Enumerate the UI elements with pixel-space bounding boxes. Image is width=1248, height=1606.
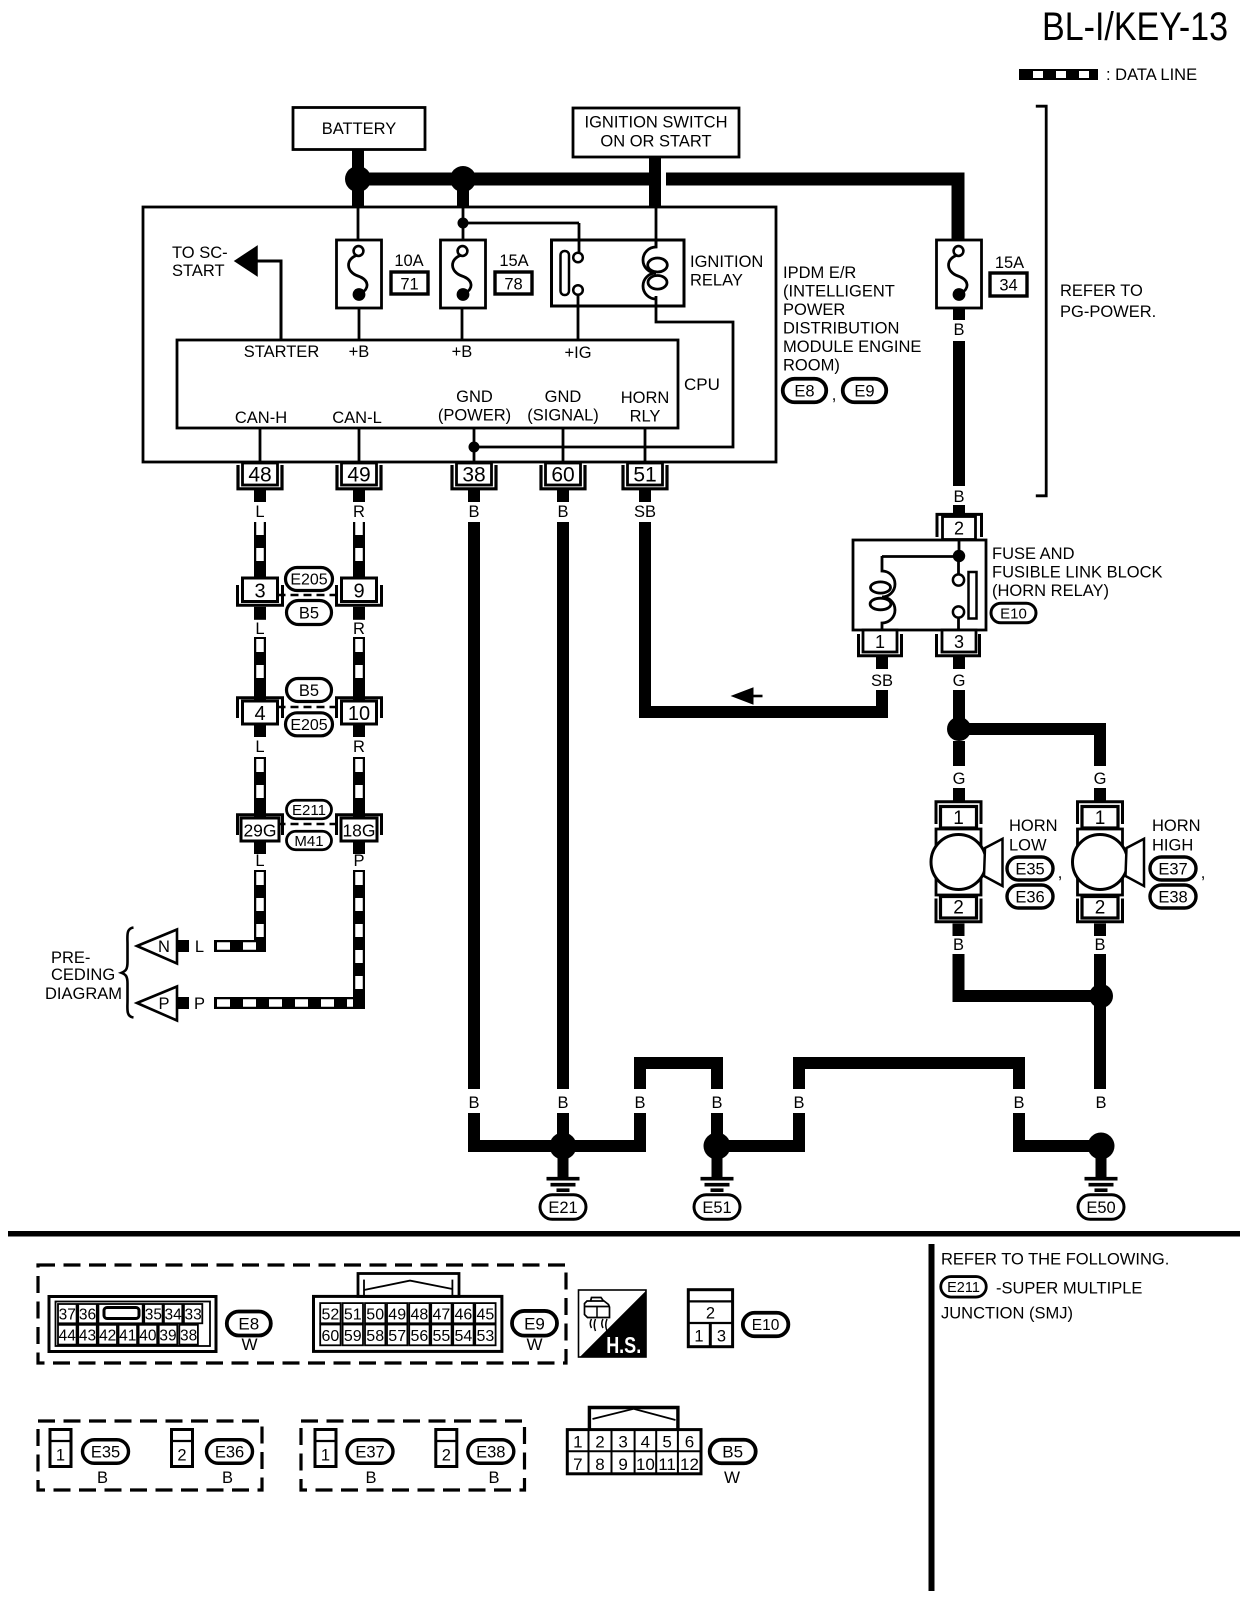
svg-text:ON OR START: ON OR START bbox=[600, 133, 711, 151]
svg-text:E8: E8 bbox=[238, 1315, 259, 1334]
svg-text:PRE-: PRE- bbox=[51, 949, 90, 967]
svg-text:54: 54 bbox=[455, 1328, 473, 1345]
svg-text:44: 44 bbox=[59, 1328, 77, 1345]
svg-text:39: 39 bbox=[159, 1328, 176, 1345]
svg-text:51: 51 bbox=[344, 1307, 362, 1324]
svg-text:E8: E8 bbox=[794, 382, 814, 400]
svg-text:E205: E205 bbox=[290, 572, 327, 589]
svg-text:2: 2 bbox=[953, 898, 964, 919]
svg-text:B: B bbox=[1095, 1094, 1106, 1112]
svg-text:P: P bbox=[353, 852, 364, 870]
svg-text:B: B bbox=[1094, 936, 1105, 954]
svg-text:L: L bbox=[255, 503, 264, 521]
svg-text:3: 3 bbox=[254, 581, 265, 603]
svg-text:TO SC-: TO SC- bbox=[172, 244, 228, 262]
svg-text:45: 45 bbox=[477, 1307, 495, 1324]
svg-text:4: 4 bbox=[641, 1433, 650, 1452]
svg-text:N: N bbox=[158, 938, 170, 956]
svg-text:B: B bbox=[953, 936, 964, 954]
svg-text:4: 4 bbox=[254, 703, 265, 725]
svg-text:PG-POWER.: PG-POWER. bbox=[1060, 303, 1156, 321]
svg-text:RLY: RLY bbox=[630, 408, 661, 426]
svg-text:P: P bbox=[194, 995, 205, 1013]
svg-text:HORN: HORN bbox=[621, 389, 670, 407]
svg-text:37: 37 bbox=[59, 1307, 76, 1324]
svg-text:50: 50 bbox=[366, 1307, 384, 1324]
svg-text:L: L bbox=[255, 852, 264, 870]
svg-text:E50: E50 bbox=[1086, 1199, 1115, 1217]
svg-text:2: 2 bbox=[442, 1447, 451, 1465]
svg-text:+IG: +IG bbox=[564, 344, 591, 362]
svg-text:2: 2 bbox=[177, 1447, 186, 1465]
svg-text:1: 1 bbox=[321, 1447, 330, 1465]
svg-text:RELAY: RELAY bbox=[690, 272, 743, 290]
svg-text:43: 43 bbox=[79, 1328, 96, 1345]
svg-text:B5: B5 bbox=[722, 1443, 743, 1462]
svg-text:+B: +B bbox=[349, 343, 370, 361]
svg-text:47: 47 bbox=[433, 1307, 451, 1324]
svg-text:E38: E38 bbox=[476, 1443, 505, 1461]
svg-text:E35: E35 bbox=[91, 1443, 120, 1461]
svg-text:GND: GND bbox=[545, 388, 582, 406]
svg-text:B: B bbox=[488, 1469, 499, 1487]
svg-text:29G: 29G bbox=[243, 821, 276, 841]
svg-text:B: B bbox=[953, 321, 964, 339]
svg-text:JUNCTION (SMJ): JUNCTION (SMJ) bbox=[941, 1305, 1073, 1323]
svg-text:3: 3 bbox=[717, 1328, 726, 1346]
svg-text:L: L bbox=[255, 620, 264, 638]
svg-text:+B: +B bbox=[452, 343, 473, 361]
svg-text:E21: E21 bbox=[548, 1199, 577, 1217]
svg-text:LOW: LOW bbox=[1009, 837, 1047, 855]
svg-text:35: 35 bbox=[145, 1307, 162, 1324]
svg-text:15A: 15A bbox=[499, 252, 528, 270]
svg-text:B: B bbox=[468, 1094, 479, 1112]
svg-text:R: R bbox=[353, 620, 365, 638]
svg-text:REFER TO: REFER TO bbox=[1060, 282, 1143, 300]
svg-text:FUSIBLE LINK BLOCK: FUSIBLE LINK BLOCK bbox=[992, 564, 1163, 582]
svg-text:B: B bbox=[953, 488, 964, 506]
svg-text:12: 12 bbox=[680, 1455, 699, 1474]
svg-text:G: G bbox=[953, 672, 966, 690]
svg-text:B: B bbox=[97, 1469, 108, 1487]
svg-text:3: 3 bbox=[618, 1433, 627, 1452]
svg-text:(HORN RELAY): (HORN RELAY) bbox=[992, 582, 1109, 600]
svg-text:58: 58 bbox=[366, 1328, 384, 1345]
svg-text:E37: E37 bbox=[355, 1443, 384, 1461]
svg-text:: DATA LINE: : DATA LINE bbox=[1106, 66, 1197, 84]
svg-text:B: B bbox=[468, 503, 479, 521]
svg-text:34: 34 bbox=[999, 277, 1017, 295]
svg-text:3: 3 bbox=[954, 632, 964, 652]
svg-text:E36: E36 bbox=[1015, 888, 1044, 906]
svg-text:10: 10 bbox=[348, 703, 370, 725]
svg-text:E10: E10 bbox=[1000, 605, 1027, 622]
svg-text:P: P bbox=[158, 995, 169, 1013]
svg-text:1: 1 bbox=[56, 1447, 65, 1465]
svg-text:,: , bbox=[1058, 864, 1063, 882]
svg-text:B5: B5 bbox=[299, 682, 319, 700]
svg-text:M41: M41 bbox=[294, 833, 323, 850]
svg-text:53: 53 bbox=[477, 1328, 495, 1345]
svg-text:E9: E9 bbox=[524, 1314, 545, 1333]
svg-text:(INTELLIGENT: (INTELLIGENT bbox=[783, 283, 895, 301]
svg-text:1: 1 bbox=[953, 808, 964, 829]
svg-text:55: 55 bbox=[433, 1328, 451, 1345]
svg-text:59: 59 bbox=[344, 1328, 362, 1345]
svg-text:START: START bbox=[172, 262, 225, 280]
svg-text:8: 8 bbox=[595, 1455, 604, 1474]
svg-text:38: 38 bbox=[180, 1328, 197, 1345]
svg-text:E37: E37 bbox=[1158, 860, 1187, 878]
svg-text:B5: B5 bbox=[299, 604, 319, 622]
svg-text:POWER: POWER bbox=[783, 301, 845, 319]
svg-text:60: 60 bbox=[322, 1328, 340, 1345]
svg-text:R: R bbox=[353, 503, 365, 521]
svg-text:2: 2 bbox=[954, 519, 964, 539]
svg-text:L: L bbox=[255, 738, 264, 756]
svg-text:7: 7 bbox=[573, 1455, 582, 1474]
svg-text:W: W bbox=[241, 1335, 257, 1354]
svg-text:B: B bbox=[634, 1094, 645, 1112]
svg-text:SB: SB bbox=[634, 503, 656, 521]
svg-text:R: R bbox=[353, 738, 365, 756]
svg-text:REFER TO THE FOLLOWING.: REFER TO THE FOLLOWING. bbox=[941, 1251, 1169, 1269]
svg-text:34: 34 bbox=[164, 1307, 182, 1324]
svg-text:10A: 10A bbox=[394, 252, 423, 270]
svg-text:E205: E205 bbox=[290, 717, 327, 734]
svg-text:56: 56 bbox=[411, 1328, 429, 1345]
svg-text:FUSE AND: FUSE AND bbox=[992, 545, 1075, 563]
svg-text:W: W bbox=[724, 1468, 740, 1487]
svg-text:71: 71 bbox=[400, 276, 418, 294]
svg-text:GND: GND bbox=[456, 388, 493, 406]
svg-text:10: 10 bbox=[636, 1455, 655, 1474]
svg-text:CPU: CPU bbox=[684, 375, 720, 394]
svg-text:BL-I/KEY-13: BL-I/KEY-13 bbox=[1042, 5, 1228, 49]
svg-text:B: B bbox=[1013, 1094, 1024, 1112]
svg-text:18G: 18G bbox=[342, 821, 375, 841]
svg-text:BATTERY: BATTERY bbox=[322, 120, 397, 138]
svg-text:(POWER): (POWER) bbox=[438, 407, 511, 425]
svg-text:E51: E51 bbox=[702, 1199, 731, 1217]
svg-text:9: 9 bbox=[618, 1455, 627, 1474]
svg-text:60: 60 bbox=[551, 464, 574, 487]
svg-text:52: 52 bbox=[322, 1307, 340, 1324]
svg-text:H.S.: H.S. bbox=[606, 1332, 641, 1358]
svg-text:MODULE ENGINE: MODULE ENGINE bbox=[783, 338, 921, 356]
svg-text:CAN-H: CAN-H bbox=[235, 409, 287, 427]
svg-text:-SUPER MULTIPLE: -SUPER MULTIPLE bbox=[996, 1280, 1142, 1298]
svg-text:(SIGNAL): (SIGNAL) bbox=[527, 407, 599, 425]
svg-text:G: G bbox=[1094, 770, 1107, 788]
svg-text:E211: E211 bbox=[947, 1280, 980, 1296]
svg-text:2: 2 bbox=[595, 1433, 604, 1452]
svg-text:E9: E9 bbox=[854, 382, 874, 400]
svg-text:HORN: HORN bbox=[1152, 817, 1201, 835]
svg-text:,: , bbox=[1201, 864, 1206, 882]
svg-text:,: , bbox=[832, 386, 837, 404]
svg-text:ROOM): ROOM) bbox=[783, 357, 840, 375]
svg-text:STARTER: STARTER bbox=[244, 343, 320, 361]
svg-text:E10: E10 bbox=[752, 1317, 780, 1334]
svg-text:5: 5 bbox=[662, 1433, 671, 1452]
svg-text:B: B bbox=[365, 1469, 376, 1487]
svg-text:B: B bbox=[557, 1094, 568, 1112]
svg-text:DISTRIBUTION: DISTRIBUTION bbox=[783, 320, 899, 338]
svg-text:1: 1 bbox=[573, 1433, 582, 1452]
svg-text:51: 51 bbox=[633, 464, 656, 487]
svg-text:40: 40 bbox=[139, 1328, 157, 1345]
svg-text:G: G bbox=[953, 770, 966, 788]
svg-text:DIAGRAM: DIAGRAM bbox=[45, 985, 122, 1003]
svg-text:46: 46 bbox=[455, 1307, 473, 1324]
svg-text:42: 42 bbox=[99, 1328, 116, 1345]
svg-text:49: 49 bbox=[388, 1307, 406, 1324]
svg-text:33: 33 bbox=[184, 1307, 201, 1324]
svg-text:E38: E38 bbox=[1158, 888, 1187, 906]
svg-text:E35: E35 bbox=[1015, 860, 1044, 878]
svg-text:36: 36 bbox=[79, 1307, 96, 1324]
svg-text:11: 11 bbox=[658, 1455, 676, 1474]
svg-text:E211: E211 bbox=[292, 802, 326, 819]
svg-text:HIGH: HIGH bbox=[1152, 837, 1193, 855]
svg-text:CAN-L: CAN-L bbox=[332, 409, 382, 427]
svg-text:B: B bbox=[557, 503, 568, 521]
svg-text:6: 6 bbox=[685, 1433, 694, 1452]
svg-text:41: 41 bbox=[119, 1328, 136, 1345]
svg-text:38: 38 bbox=[462, 464, 485, 487]
svg-text:1: 1 bbox=[694, 1328, 703, 1346]
svg-text:1: 1 bbox=[875, 632, 885, 652]
svg-text:IGNITION SWITCH: IGNITION SWITCH bbox=[585, 114, 728, 132]
svg-text:E36: E36 bbox=[215, 1443, 244, 1461]
svg-text:CEDING: CEDING bbox=[51, 966, 115, 984]
svg-text:B: B bbox=[711, 1094, 722, 1112]
svg-text:57: 57 bbox=[388, 1328, 406, 1345]
svg-text:49: 49 bbox=[347, 464, 370, 487]
svg-text:B: B bbox=[222, 1469, 233, 1487]
svg-text:2: 2 bbox=[706, 1304, 715, 1322]
svg-text:W: W bbox=[526, 1335, 542, 1354]
svg-text:1: 1 bbox=[1095, 808, 1106, 829]
svg-text:9: 9 bbox=[353, 581, 364, 603]
svg-text:48: 48 bbox=[411, 1307, 429, 1324]
svg-text:78: 78 bbox=[504, 276, 522, 294]
svg-text:2: 2 bbox=[1095, 898, 1106, 919]
svg-text:IGNITION: IGNITION bbox=[690, 253, 763, 271]
svg-text:HORN: HORN bbox=[1009, 817, 1058, 835]
svg-text:SB: SB bbox=[871, 672, 893, 690]
svg-text:48: 48 bbox=[248, 464, 271, 487]
svg-text:L: L bbox=[195, 938, 204, 956]
svg-text:IPDM E/R: IPDM E/R bbox=[783, 264, 856, 282]
svg-text:B: B bbox=[793, 1094, 804, 1112]
svg-text:15A: 15A bbox=[995, 254, 1024, 272]
